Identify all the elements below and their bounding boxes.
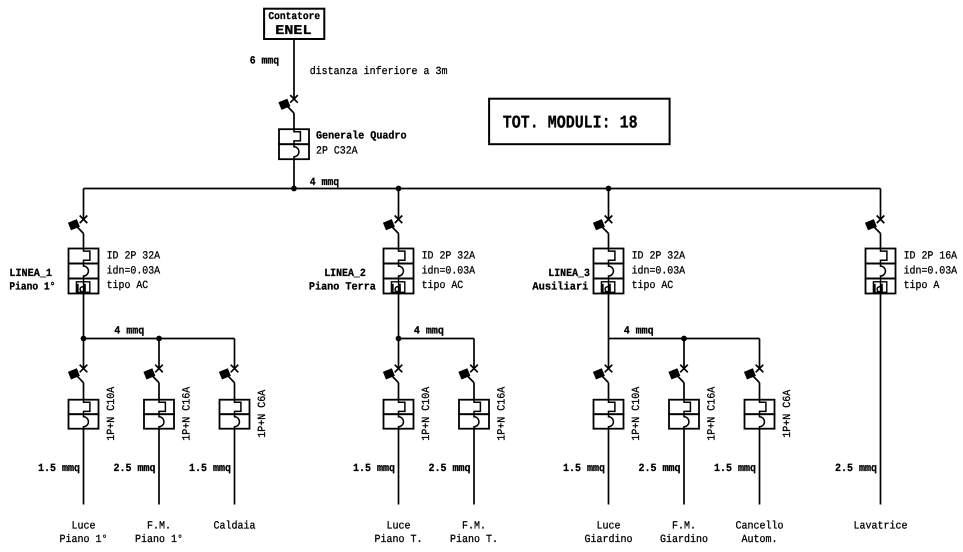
wire MCB to load (Cancello Autom.) (759, 429, 761, 505)
breaker contact branch breaker (F.M. Giardino): lever (672, 371, 684, 383)
svg-text:F.M.: F.M. (672, 520, 696, 532)
breaker contact QF0 (Generale Quadro): lever (282, 101, 294, 113)
wire MCB to load (Luce Piano T.) (398, 429, 400, 505)
svg-text:tipo AC: tipo AC (107, 280, 149, 292)
svg-text:1P+N C16A: 1P+N C16A (497, 386, 509, 440)
svg-text:Generale Quadro: Generale Quadro (316, 131, 407, 143)
svg-text:Luce: Luce (72, 520, 96, 532)
breaker contact LINEA_4 (Lavatrice): actuator square (865, 219, 877, 230)
RCD LINEA_3: wire through differential block (608, 279, 610, 294)
RCD LINEA_3: module outline (594, 249, 624, 264)
breaker contact QF0 (Generale Quadro): actuator square (278, 99, 290, 110)
wire RCD LINEA_1 to sub bus (83, 294, 85, 339)
breaker contact LINEA_3: cross mark (605, 216, 613, 224)
MCB 1P+N C6A (Cancello Autom.): module outline (745, 400, 775, 415)
wire sub bus to contact (Caldaia) (234, 339, 236, 369)
MCB 1P+N C10A (Luce Giardino): thermal and magnetic elements (609, 400, 615, 429)
svg-text:Autom.: Autom. (742, 534, 778, 546)
wire RCD LINEA_4 (Lavatrice) to load (880, 294, 882, 505)
svg-text:4 mmq: 4 mmq (114, 326, 144, 338)
breaker contact LINEA_2: lever (387, 222, 399, 234)
wire sub bus to contact (Cancello Autom.) (759, 339, 761, 369)
breaker contact branch breaker (Luce Giardino): lever (597, 371, 609, 383)
svg-text:1P+N C16A: 1P+N C16A (707, 386, 719, 440)
svg-text:2.5 mmq: 2.5 mmq (114, 463, 156, 475)
MCB 1P+N C6A (Cancello Autom.): thermal and magnetic elements (760, 400, 766, 429)
svg-text:1P+N C6A: 1P+N C6A (782, 389, 794, 437)
svg-text:1.5 mmq: 1.5 mmq (714, 463, 756, 475)
RCD LINEA_2: module outline (384, 249, 414, 264)
svg-text:1P+N C6A: 1P+N C6A (257, 389, 269, 437)
svg-text:Piano Terra: Piano Terra (309, 282, 376, 294)
breaker contact LINEA_2: cross mark (395, 216, 403, 224)
breaker contact LINEA_1: lever (72, 222, 84, 234)
svg-text:1.5 mmq: 1.5 mmq (38, 463, 80, 475)
svg-text:Luce: Luce (597, 520, 621, 532)
svg-text:Cancello: Cancello (736, 520, 784, 532)
svg-text:distanza inferiore a 3m: distanza inferiore a 3m (310, 66, 448, 78)
wire sub bus to contact (Luce Piano T.) (398, 339, 400, 369)
svg-text:idn=0.03A: idn=0.03A (632, 265, 686, 277)
junction on sub bus LINEA_1 (156, 336, 162, 342)
RCD LINEA_1: Id label (drawn) (78, 284, 85, 292)
MCB 1P+N C16A (F.M. Piano T.): module outline (459, 400, 489, 415)
svg-text:2.5 mmq: 2.5 mmq (639, 463, 681, 475)
svg-text:TOT. MODULI: 18: TOT. MODULI: 18 (503, 114, 638, 134)
sub bus LINEA_2 (399, 338, 475, 340)
svg-text:LINEA_2: LINEA_2 (324, 268, 366, 280)
RCD LINEA_1: module outline (69, 249, 99, 264)
wire MCB to load (F.M. Giardino) (683, 429, 685, 505)
svg-text:idn=0.03A: idn=0.03A (107, 265, 161, 277)
wire bus to LINEA_3 contact (608, 189, 610, 220)
svg-text:Lavatrice: Lavatrice (854, 520, 908, 532)
wire contact to RCD LINEA_2 (398, 234, 400, 249)
svg-text:1P+N C10A: 1P+N C10A (631, 386, 643, 440)
RCD LINEA_4 (Lavatrice): module outline (866, 249, 896, 264)
breaker contact branch breaker (Luce Giardino): actuator square (593, 368, 605, 379)
RCD LINEA_2: Id label (drawn) (393, 284, 400, 292)
svg-text:Piano 1°: Piano 1° (9, 282, 55, 294)
wire contact to MCB (Caldaia) (234, 383, 236, 400)
sub bus LINEA_3 (609, 338, 760, 340)
svg-text:ENEL: ENEL (275, 24, 311, 39)
svg-text:tipo A: tipo A (904, 280, 940, 292)
RCD LINEA_3: differential Id box (601, 282, 614, 293)
breaker contact branch breaker (F.M. Piano 1°): actuator square (143, 368, 155, 379)
wire contact to RCD LINEA_3 (608, 234, 610, 249)
wire contact to MCB (F.M. Giardino) (683, 383, 685, 400)
svg-text:Piano 1°: Piano 1° (60, 534, 108, 546)
RCD LINEA_1: wire through differential block (83, 279, 85, 294)
MCB 1P+N C16A (F.M. Giardino): module outline (669, 400, 699, 415)
breaker contact branch breaker (Luce Piano T.): cross mark (395, 365, 403, 373)
wire contact to MCB (Luce Piano T.) (398, 383, 400, 400)
RCD LINEA_4 (Lavatrice): Id label (drawn) (875, 284, 882, 292)
wire contact to MCB (F.M. Piano 1°) (158, 383, 160, 400)
svg-text:Ausiliari: Ausiliari (532, 282, 588, 294)
svg-text:4 mmq: 4 mmq (414, 326, 444, 338)
junction on sub bus LINEA_2 (396, 336, 402, 342)
RCD LINEA_1: differential Id box (76, 282, 89, 293)
svg-text:Giardino: Giardino (585, 534, 633, 546)
RCD LINEA_4 (Lavatrice): wire through differential block (880, 279, 882, 294)
breaker contact LINEA_1: cross mark (80, 216, 88, 224)
wire MCB to load (F.M. Piano T.) (473, 429, 475, 505)
wire RCD LINEA_3 to sub bus (608, 294, 610, 339)
breaker contact branch breaker (F.M. Piano T.): lever (462, 371, 474, 383)
svg-text:6 mmq: 6 mmq (250, 56, 279, 68)
breaker contact branch breaker (F.M. Piano 1°): lever (147, 371, 159, 383)
breaker contact QF0 (Generale Quadro): cross mark (290, 95, 298, 103)
svg-text:4 mmq: 4 mmq (624, 326, 654, 338)
wire sub bus to contact (Luce Giardino) (608, 339, 610, 369)
ENEL meter box (Contatore ENEL) (264, 9, 324, 39)
MCB 1P+N C6A (Caldaia): thermal and magnetic elements (235, 400, 241, 429)
RCD LINEA_2: differential Id box (391, 282, 404, 293)
wire sub bus to contact (F.M. Giardino) (683, 339, 685, 369)
breaker contact LINEA_4 (Lavatrice): lever (869, 222, 881, 234)
junction trunk to bus (291, 186, 297, 192)
RCD LINEA_2: wire through differential block (398, 279, 400, 294)
breaker contact branch breaker (Cancello Autom.): cross mark (756, 365, 764, 373)
breaker contact branch breaker (Caldaia): lever (223, 371, 235, 383)
breaker contact branch breaker (Luce Piano 1°): lever (72, 371, 84, 383)
MCB 1P+N C16A (F.M. Giardino): thermal and magnetic elements (684, 400, 690, 429)
svg-text:Giardino: Giardino (660, 534, 708, 546)
svg-text:idn=0.03A: idn=0.03A (422, 265, 476, 277)
MCB 1P+N C6A (Caldaia): module outline (220, 400, 250, 415)
MCB 1P+N C10A (Luce Piano 1°): thermal and magnetic elements (84, 400, 90, 429)
svg-text:4 mmq: 4 mmq (310, 177, 339, 189)
svg-text:ID 2P 32A: ID 2P 32A (632, 251, 686, 263)
breaker contact branch breaker (F.M. Piano T.): cross mark (470, 365, 478, 373)
breaker contact LINEA_3: actuator square (593, 219, 605, 230)
svg-text:Contatore: Contatore (268, 11, 320, 23)
MCB 1P+N C10A (Luce Piano 1°): module outline (69, 400, 99, 415)
svg-text:2P C32A: 2P C32A (316, 146, 358, 158)
junction bus to LINEA_2 (396, 186, 402, 192)
breaker contact branch breaker (Caldaia): actuator square (219, 368, 231, 379)
wire RCD LINEA_2 to sub bus (398, 294, 400, 339)
main MCB Generale Quadro 2P C32A: thermal and magnetic elements (294, 129, 300, 159)
svg-text:1.5 mmq: 1.5 mmq (563, 463, 605, 475)
total modules box (489, 99, 669, 145)
junction bus to LINEA_3 (606, 186, 612, 192)
svg-text:Piano T.: Piano T. (450, 534, 498, 546)
svg-text:1P+N C16A: 1P+N C16A (182, 386, 194, 440)
breaker contact branch breaker (Luce Piano T.): lever (387, 371, 399, 383)
breaker contact LINEA_3: lever (597, 222, 609, 234)
svg-text:tipo AC: tipo AC (422, 280, 464, 292)
svg-text:tipo AC: tipo AC (632, 280, 674, 292)
main MCB Generale Quadro 2P C32A: module outline (279, 129, 309, 144)
wire MCB to load (Caldaia) (234, 429, 236, 505)
breaker contact LINEA_1: actuator square (68, 219, 80, 230)
breaker contact branch breaker (Luce Piano 1°): cross mark (80, 365, 88, 373)
main distribution bus (84, 188, 881, 190)
RCD LINEA_4 (Lavatrice): differential Id box (873, 282, 886, 293)
RCD LINEA_3: thermal and magnetic elements (609, 249, 615, 279)
wire contact to MCB (Luce Piano 1°) (83, 383, 85, 400)
MCB 1P+N C10A (Luce Giardino): module outline (594, 400, 624, 415)
svg-text:Caldaia: Caldaia (214, 520, 256, 532)
breaker contact branch breaker (Luce Piano T.): actuator square (383, 368, 395, 379)
junction on sub bus LINEA_1 (81, 336, 87, 342)
svg-text:2.5 mmq: 2.5 mmq (429, 463, 471, 475)
MCB 1P+N C10A (Luce Piano T.): thermal and magnetic elements (399, 400, 405, 429)
breaker contact branch breaker (F.M. Piano T.): actuator square (458, 368, 470, 379)
RCD LINEA_1: thermal and magnetic elements (84, 249, 90, 279)
wire sub bus to contact (F.M. Piano T.) (473, 339, 475, 369)
svg-text:idn=0.03A: idn=0.03A (904, 265, 958, 277)
breaker contact branch breaker (F.M. Piano 1°): cross mark (155, 365, 163, 373)
svg-text:2.5 mmq: 2.5 mmq (835, 463, 877, 475)
wire bus to LINEA_1 contact (83, 189, 85, 220)
svg-text:ID 2P 16A: ID 2P 16A (904, 251, 958, 263)
wire contact to MCB (Luce Giardino) (608, 383, 610, 400)
breaker contact branch breaker (Cancello Autom.): lever (748, 371, 760, 383)
wire sub bus to contact (F.M. Piano 1°) (158, 339, 160, 369)
MCB 1P+N C16A (F.M. Piano 1°): thermal and magnetic elements (159, 400, 165, 429)
breaker contact branch breaker (Luce Piano 1°): actuator square (68, 368, 80, 379)
breaker contact branch breaker (F.M. Giardino): cross mark (680, 365, 688, 373)
wire bus to LINEA_2 contact (398, 189, 400, 220)
svg-text:F.M.: F.M. (147, 520, 171, 532)
MCB 1P+N C10A (Luce Piano T.): module outline (384, 400, 414, 415)
svg-text:1.5 mmq: 1.5 mmq (353, 463, 395, 475)
breaker contact branch breaker (Cancello Autom.): actuator square (744, 368, 756, 379)
breaker contact branch breaker (F.M. Giardino): actuator square (668, 368, 680, 379)
MCB 1P+N C16A (F.M. Piano 1°): module outline (144, 400, 174, 415)
wire contact to MCB (F.M. Piano T.) (473, 383, 475, 400)
svg-text:LINEA_1: LINEA_1 (9, 268, 52, 280)
wire contact to MCB (Cancello Autom.) (759, 383, 761, 400)
svg-text:Piano 1°: Piano 1° (135, 534, 183, 546)
RCD LINEA_3: Id label (drawn) (603, 284, 610, 292)
sub bus LINEA_1 (84, 338, 235, 340)
breaker contact LINEA_4 (Lavatrice): cross mark (877, 216, 885, 224)
RCD LINEA_4 (Lavatrice): thermal and magnetic elements (881, 249, 887, 279)
breaker contact LINEA_2: actuator square (383, 219, 395, 230)
svg-text:Luce: Luce (387, 520, 411, 532)
svg-text:LINEA_3: LINEA_3 (548, 268, 590, 280)
wire MCB to load (Luce Giardino) (608, 429, 610, 505)
wire contact to main MCB (293, 113, 295, 129)
svg-text:ID 2P 32A: ID 2P 32A (422, 251, 476, 263)
wire contact to RCD LINEA_1 (83, 234, 85, 249)
wire bus to LINEA_4 (Lavatrice) contact (880, 189, 882, 220)
svg-text:F.M.: F.M. (462, 520, 486, 532)
svg-text:1P+N C10A: 1P+N C10A (421, 386, 433, 440)
RCD LINEA_2: thermal and magnetic elements (399, 249, 405, 279)
wire from meter to main breaker contact (293, 39, 295, 99)
svg-text:Piano T.: Piano T. (375, 534, 423, 546)
svg-text:1.5 mmq: 1.5 mmq (189, 463, 231, 475)
wire main MCB to bus (293, 159, 295, 188)
junction on sub bus LINEA_3 (681, 336, 687, 342)
svg-text:1P+N C10A: 1P+N C10A (106, 386, 118, 440)
MCB 1P+N C16A (F.M. Piano T.): thermal and magnetic elements (474, 400, 480, 429)
wire MCB to load (F.M. Piano 1°) (158, 429, 160, 505)
svg-text:ID 2P 32A: ID 2P 32A (107, 251, 161, 263)
breaker contact branch breaker (Luce Giardino): cross mark (605, 365, 613, 373)
breaker contact branch breaker (Caldaia): cross mark (231, 365, 239, 373)
wire MCB to load (Luce Piano 1°) (83, 429, 85, 505)
wire contact to RCD LINEA_4 (Lavatrice) (880, 234, 882, 249)
wire sub bus to contact (Luce Piano 1°) (83, 339, 85, 369)
